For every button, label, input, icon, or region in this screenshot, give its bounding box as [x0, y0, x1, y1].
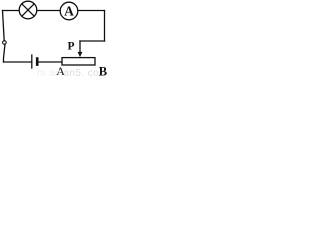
svg-text:an5. co: an5. co [64, 68, 100, 76]
svg-text:A: A [64, 4, 74, 19]
svg-text:P: P [68, 40, 75, 52]
svg-text:m an: m an [37, 68, 61, 76]
svg-text:B: B [99, 64, 107, 76]
